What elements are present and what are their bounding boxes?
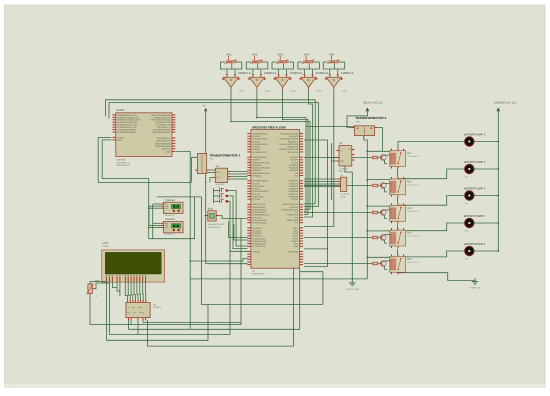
sounder BAT1 body <box>208 211 216 221</box>
svg-text:TRANSDUCER: TRANSDUCER <box>208 226 222 229</box>
resistor RB1 <box>373 156 378 159</box>
svg-text:LM324: LM324 <box>290 90 296 93</box>
wire lcd bus to mcu <box>190 258 247 261</box>
regulator U5 body <box>339 146 352 166</box>
sensor TOWER2 body <box>163 222 183 233</box>
wire tower bus <box>148 178 150 238</box>
svg-text:PE1/TXD0: PE1/TXD0 <box>252 216 261 219</box>
svg-text:BAT1: BAT1 <box>208 208 214 211</box>
svg-text:PB1/SCK: PB1/SCK <box>252 159 261 162</box>
lcd pin name strip <box>106 275 107 277</box>
svg-text:PF7/ADC7/TDI: PF7/ADC7/TDI <box>252 245 265 248</box>
potentiometer RV1 body <box>88 284 92 293</box>
wire gnd rail drop <box>300 272 323 305</box>
wire U4 bottom stubs <box>130 320 132 324</box>
svg-text:PB2/MOSI/PCINT10: PB2/MOSI/PCINT10 <box>252 161 269 164</box>
push button B2 <box>218 195 221 197</box>
mcu U2 left pins <box>247 133 251 135</box>
transistor Q1 <box>380 155 386 161</box>
svg-text:PH5/OC4C: PH5/OC4C <box>289 193 299 196</box>
sensor TOWER1 body <box>163 202 183 213</box>
svg-text:PA3/AD3: PA3/AD3 <box>252 140 260 143</box>
svg-text:PF5/ADC5/TMS: PF5/ADC5/TMS <box>252 240 266 243</box>
svg-text:VR1: VR1 <box>226 53 232 56</box>
wire adc to mcu <box>228 171 248 173</box>
svg-text:TOWER1: TOWER1 <box>165 199 176 202</box>
svg-text:PK2/ADC10/PCINT18: PK2/ADC10/PCINT18 <box>280 138 299 141</box>
svg-text:PG0/WR: PG0/WR <box>252 250 260 253</box>
wire bottom loop 1 <box>90 219 241 325</box>
svg-text:P0: P0 <box>127 312 129 315</box>
wire Q4 collector to relay <box>385 234 390 236</box>
svg-text:G2R-14 DC12: G2R-14 DC12 <box>407 184 418 187</box>
svg-text:PL4/OC5B: PL4/OC5B <box>289 167 299 170</box>
svg-text:SDD0/SPIQ/MISO: SDD0/SPIQ/MISO <box>155 142 171 145</box>
wire tower top link <box>157 196 202 198</box>
svg-text:PL2/T5: PL2/T5 <box>292 161 298 164</box>
svg-text:PH6/OC2B: PH6/OC2B <box>289 195 299 198</box>
wire buttons left bus <box>213 188 215 204</box>
svg-text:PC6/A14/RD: PC6/A14/RD <box>252 195 263 198</box>
motor pump M1 <box>465 137 474 146</box>
wire rv1 wiper <box>92 283 109 289</box>
svg-text:LM016L: LM016L <box>102 245 110 248</box>
wire comparator out 4 <box>304 91 313 217</box>
svg-text:PB0/SS/PCINT8: PB0/SS/PCINT8 <box>252 156 266 159</box>
svg-text:PA7/AD7/PCINT7: PA7/AD7/PCINT7 <box>252 151 267 154</box>
svg-text:VIN-: VIN- <box>216 176 220 179</box>
svg-text:TRANSFORMATOR 2: TRANSFORMATOR 2 <box>355 116 386 120</box>
wire Q4 emitter down <box>385 240 387 243</box>
wire trafo2 right leg <box>375 128 383 152</box>
mcu U2 right pins <box>300 133 304 135</box>
svg-text:PJ4/PCINT13: PJ4/PCINT13 <box>286 214 298 217</box>
wire top rail 2 <box>109 103 319 207</box>
svg-text:PJ5: PJ5 <box>295 216 298 219</box>
svg-text:VR4: VR4 <box>304 53 310 56</box>
wire 5V arrow down <box>205 111 207 264</box>
svg-text:COMP3:A: COMP3:A <box>290 71 303 75</box>
svg-text:PE2/XCK0/AIN0: PE2/XCK0/AIN0 <box>252 219 266 222</box>
svg-text:WATER PUMP 3: WATER PUMP 3 <box>464 187 486 191</box>
svg-text:SDD1/SPID/MOSI: SDD1/SPID/MOSI <box>155 145 171 148</box>
svg-text:PC7/A15: PC7/A15 <box>252 198 260 201</box>
svg-text:COMP1:A: COMP1:A <box>238 71 251 75</box>
transformer TR2 body <box>354 126 374 136</box>
svg-text:PF0/ADC0: PF0/ADC0 <box>252 227 261 230</box>
svg-text:GPIO10/SDD3/SPIWP: GPIO10/SDD3/SPIWP <box>152 131 172 134</box>
wire regulator ground <box>345 166 352 279</box>
svg-text:CONN: CONN <box>340 195 346 198</box>
wire pump 3 feed <box>398 196 464 206</box>
svg-text:LM324: LM324 <box>316 90 322 93</box>
svg-text:PB6/OC1B/PCINT14: PB6/OC1B/PCINT14 <box>252 172 270 175</box>
svg-text:PF2/ADC2: PF2/ADC2 <box>252 232 261 235</box>
svg-text:LCD1: LCD1 <box>102 242 109 245</box>
wire tower left link <box>152 204 154 239</box>
svg-text:SIL-100-04: SIL-100-04 <box>340 193 349 196</box>
wire transistor drive rows <box>304 157 373 159</box>
svg-text:PA0/AD0/PCINT0: PA0/AD0/PCINT0 <box>252 133 267 136</box>
svg-text:AGND: AGND <box>293 232 299 235</box>
svg-text:PA2/AD2/PCINT2: PA2/AD2/PCINT2 <box>252 138 267 141</box>
wire trafo1 right leg <box>209 169 216 171</box>
svg-text:PK5/ADC13: PK5/ADC13 <box>288 146 298 149</box>
motor pump M2 <box>465 164 474 173</box>
svg-text:GPIO13/MOSI/HSPID: GPIO13/MOSI/HSPID <box>117 131 136 134</box>
wire buttons bus 1 <box>228 191 247 247</box>
svg-text:PB7/OC0A: PB7/OC0A <box>252 174 262 177</box>
wire trafo2 left leg <box>347 112 367 128</box>
svg-text:PE0/RXD0/PCINT8: PE0/RXD0/PCINT8 <box>252 214 268 217</box>
transistor Q2 <box>380 183 386 189</box>
svg-text:PL0/ICP4: PL0/ICP4 <box>290 156 298 159</box>
svg-text:GND_PAD: GND_PAD <box>162 148 172 151</box>
svg-text:ARDUINO MEGA 2560: ARDUINO MEGA 2560 <box>252 125 286 129</box>
resistor RB4 <box>373 236 378 239</box>
svg-text:RL5: RL5 <box>407 258 412 261</box>
svg-text:AREF: AREF <box>293 227 299 230</box>
svg-text:PA6/AD6: PA6/AD6 <box>252 148 260 151</box>
io expander U4 body <box>126 302 150 317</box>
wire relay to ground run <box>397 269 475 281</box>
motor pump M4 <box>465 218 474 227</box>
motor pump M3 <box>465 191 474 200</box>
svg-text:PL6: PL6 <box>295 172 298 175</box>
wire bus B <box>176 152 190 330</box>
wire top rail 1 <box>106 100 316 204</box>
svg-text:SDCLK/SPICLK: SDCLK/SPICLK <box>157 137 171 140</box>
svg-text:PC5/A13: PC5/A13 <box>252 193 260 196</box>
svg-text:RELAY VCC 12V: RELAY VCC 12V <box>363 102 383 105</box>
svg-text:VIN5V: VIN5V <box>165 150 171 153</box>
svg-text:TRANSFORMATOR 1: TRANSFORMATOR 1 <box>210 153 241 157</box>
svg-text:G2R-14 DC12: G2R-14 DC12 <box>407 155 418 158</box>
svg-text:TOWER2: TOWER2 <box>165 218 176 221</box>
svg-text:PK1/ADC9: PK1/ADC9 <box>289 135 298 138</box>
svg-text:SENSOR VCC 12V: SENSOR VCC 12V <box>494 102 517 105</box>
svg-text:PJ0/RXD3/PCINT9: PJ0/RXD3/PCINT9 <box>282 203 298 206</box>
svg-text:SDCMD/SPICS0: SDCMD/SPICS0 <box>156 140 170 143</box>
svg-text:PC4/A12/PCINT20: PC4/A12/PCINT20 <box>252 190 268 193</box>
wire pump supply bus <box>497 115 499 251</box>
svg-text:VCC: VCC <box>294 243 299 246</box>
svg-text:ESP32: ESP32 <box>117 109 125 112</box>
wire bat left leg <box>204 215 207 217</box>
svg-text:WATER PUMP 4: WATER PUMP 4 <box>464 214 486 218</box>
module U1 left pins <box>112 114 115 116</box>
svg-text:PH1/TXD2: PH1/TXD2 <box>289 182 298 185</box>
svg-text:ATMEGA2560: ATMEGA2560 <box>252 273 266 276</box>
svg-text:PCF8574: PCF8574 <box>153 306 161 309</box>
svg-text:PL7: PL7 <box>295 174 298 177</box>
wire misc mcu left <box>228 222 247 238</box>
wire pump 2 feed <box>398 169 464 179</box>
svg-text:PF3/ADC3: PF3/ADC3 <box>252 235 261 238</box>
svg-text:G2R-14 DC12: G2R-14 DC12 <box>407 261 418 264</box>
svg-text:PD2/RXD1/INT2: PD2/RXD1/INT2 <box>252 208 266 211</box>
svg-text:XTAL1: XTAL1 <box>292 235 298 238</box>
svg-text:PK7/ADC15: PK7/ADC15 <box>288 151 298 154</box>
svg-text:WATER PUMP 2: WATER PUMP 2 <box>464 160 486 164</box>
wire bat to mcu <box>216 216 248 219</box>
svg-text:VR2: VR2 <box>252 53 258 56</box>
svg-text:PA4/AD4/PCINT4: PA4/AD4/PCINT4 <box>252 143 267 146</box>
wire buttons bus 3 <box>228 201 247 251</box>
svg-text:PD3/TXD1/INT3: PD3/TXD1/INT3 <box>252 211 266 214</box>
wire pump 1 feed <box>398 142 464 149</box>
svg-text:PF1/ADC1: PF1/ADC1 <box>252 229 261 232</box>
svg-text:VR5: VR5 <box>329 53 335 56</box>
svg-text:VR3: VR3 <box>278 53 284 56</box>
wire trafo2 down <box>364 136 368 279</box>
wire relay supply taps <box>367 150 391 152</box>
wire adc left legs <box>207 172 213 174</box>
svg-text:RELAY GND: RELAY GND <box>347 288 360 291</box>
junction dots <box>230 121 232 123</box>
svg-text:PH3/OC4A: PH3/OC4A <box>289 188 299 191</box>
relay RL1 body <box>390 151 406 167</box>
svg-text:G2R-14 DC12: G2R-14 DC12 <box>407 210 418 213</box>
resistor RB2 <box>373 184 378 187</box>
svg-text:PC0/A8/PCINT16: PC0/A8/PCINT16 <box>252 180 267 183</box>
wire bottom loop 2 <box>129 269 300 330</box>
io expander U4 top pins <box>127 300 129 303</box>
wire 5v to mcu <box>206 263 248 265</box>
wire pump 5 feed <box>398 251 464 257</box>
svg-text:B2: B2 <box>218 191 220 194</box>
svg-text:PH0/RXD2: PH0/RXD2 <box>289 180 298 183</box>
resistor RB3 <box>373 211 378 214</box>
lcd LCD1 body <box>102 250 165 282</box>
svg-text:5V: 5V <box>203 104 206 107</box>
svg-text:AMPLIFIED SONIC: AMPLIFIED SONIC <box>208 223 225 226</box>
svg-text:WATER LVL: WATER LVL <box>165 214 175 217</box>
wire comparator out 1 <box>231 91 310 209</box>
svg-text:PC1/A9: PC1/A9 <box>252 182 259 185</box>
motor pump M5 <box>465 246 474 255</box>
wire comparator out 3 <box>283 91 308 214</box>
module U1 right pins <box>172 114 175 116</box>
wire left loop 2 <box>102 140 149 179</box>
wire comparator out 5 <box>304 91 334 227</box>
svg-text:VIN+: VIN+ <box>216 171 220 174</box>
transistor Q5 <box>380 261 386 267</box>
svg-text:PB5/OC1A: PB5/OC1A <box>252 169 262 172</box>
svg-text:RL3: RL3 <box>407 207 412 210</box>
wire rv1 top <box>90 282 107 285</box>
svg-text:PJ7: PJ7 <box>295 222 298 225</box>
wire Q1 collector to relay <box>385 154 390 156</box>
svg-text:LM7805CT: LM7805CT <box>339 167 349 170</box>
wire tower1 legs <box>153 203 161 205</box>
wire buttons bus 2 <box>228 196 247 249</box>
wire pump 4 feed <box>398 223 464 231</box>
wire lcd ctrl down <box>112 282 117 287</box>
svg-text:PUMP GND: PUMP GND <box>470 287 482 290</box>
svg-text:RL2: RL2 <box>407 180 412 183</box>
mcu U2 body <box>251 130 300 269</box>
relay RL3 body <box>390 205 406 221</box>
svg-text:WATER PUMP 1: WATER PUMP 1 <box>464 133 486 137</box>
io expander U4 bottom pins <box>128 318 130 321</box>
svg-text:COMP4:A: COMP4:A <box>316 71 329 75</box>
svg-text:NODEMCU V3: NODEMCU V3 <box>117 161 131 164</box>
svg-text:WIFI MODULE: WIFI MODULE <box>117 164 131 167</box>
svg-text:PJ1/TXD3: PJ1/TXD3 <box>289 206 298 209</box>
wire bottom loop 6 <box>202 197 323 305</box>
svg-text:RESET: RESET <box>292 240 299 243</box>
ground RELAY GND <box>351 279 353 283</box>
wire bottom loop 4 <box>107 281 208 340</box>
svg-text:PK6/ADC14/PCINT22: PK6/ADC14/PCINT22 <box>280 148 299 151</box>
resistor RB5 <box>373 262 378 265</box>
svg-text:PA1/AD1: PA1/AD1 <box>252 135 260 138</box>
wire Q2 collector to relay <box>385 182 390 185</box>
wire Q5 emitter down <box>385 266 387 269</box>
svg-text:PL5/OC5C: PL5/OC5C <box>289 169 299 172</box>
wire bundle extra <box>304 140 328 267</box>
svg-text:P4 P6: P4 P6 <box>139 312 144 315</box>
svg-text:1k: 1k <box>95 295 97 298</box>
transistor Q4 <box>380 235 386 241</box>
svg-text:P2: P2 <box>133 312 135 315</box>
svg-text:PA5/AD5: PA5/AD5 <box>252 146 260 149</box>
ground PUMP GND <box>474 278 476 282</box>
svg-text:GND: GND <box>117 139 122 142</box>
svg-text:PH7/T4: PH7/T4 <box>292 198 298 201</box>
wire Q5 collector to relay <box>385 260 390 262</box>
svg-text:ESP8266: ESP8266 <box>117 158 127 161</box>
wire Q2 emitter down <box>385 188 387 192</box>
relay RL4 body <box>390 230 406 246</box>
svg-text:PD0/SCL/INT0: PD0/SCL/INT0 <box>252 203 265 206</box>
svg-text:PJ6/PCINT15: PJ6/PCINT15 <box>286 219 298 222</box>
svg-text:RL4: RL4 <box>407 232 412 235</box>
svg-text:XTAL2: XTAL2 <box>292 237 298 240</box>
adc U3 body <box>215 168 227 182</box>
module U1 body <box>116 113 172 157</box>
push button B1 <box>218 190 221 192</box>
svg-text:PH2/XCK2: PH2/XCK2 <box>289 185 298 188</box>
wire tower aux <box>148 206 150 225</box>
svg-text:PB3/MISO: PB3/MISO <box>252 164 261 167</box>
svg-text:B1: B1 <box>218 186 220 189</box>
svg-text:PF4/ADC4/TCK: PF4/ADC4/TCK <box>252 237 266 240</box>
wire trafo1 left legs <box>192 157 196 182</box>
svg-text:GND: GND <box>294 245 299 248</box>
wire connector to mcu <box>304 178 341 180</box>
svg-text:PC2/A10/WR: PC2/A10/WR <box>252 185 264 188</box>
svg-text:LM324: LM324 <box>342 90 348 93</box>
svg-text:PK3/ADC11: PK3/ADC11 <box>288 140 298 143</box>
push button B3 <box>218 200 221 202</box>
wire lcd data to U4 <box>125 282 127 300</box>
svg-text:AVCC: AVCC <box>293 229 299 232</box>
svg-text:PL1/ICP5: PL1/ICP5 <box>290 159 298 162</box>
svg-text:PD1/SDA/INT1: PD1/SDA/INT1 <box>252 206 265 209</box>
wire Q3 emitter down <box>385 215 387 218</box>
wire tower2 legs <box>153 222 161 224</box>
svg-text:B3: B3 <box>218 196 220 199</box>
svg-text:LM324: LM324 <box>239 90 245 93</box>
svg-text:PF6/ADC6/TDO: PF6/ADC6/TDO <box>252 243 266 246</box>
wire comparator out 2 <box>257 91 306 212</box>
svg-text:PB4/OC2A/PCINT12: PB4/OC2A/PCINT12 <box>252 167 270 170</box>
wire relay common chain <box>396 169 398 177</box>
transformer TR1 body <box>197 153 206 173</box>
wire left loop 1 <box>98 137 190 182</box>
svg-text:COMP5:A: COMP5:A <box>341 71 354 75</box>
wire Q3 collector to relay <box>385 209 390 211</box>
svg-text:A1: A1 <box>132 306 134 309</box>
svg-text:PH4/OC4B: PH4/OC4B <box>289 190 299 193</box>
relay RL5 body <box>390 256 406 272</box>
svg-text:WATER LVL: WATER LVL <box>165 233 175 236</box>
svg-text:PK0/ADC8/PCINT16: PK0/ADC8/PCINT16 <box>281 133 298 136</box>
wire relay gnd rail <box>190 278 367 280</box>
svg-text:PG5/OC0B: PG5/OC0B <box>289 250 299 253</box>
transistor Q3 <box>380 210 386 216</box>
svg-text:A0: A0 <box>127 306 129 309</box>
svg-text:PC3/A11: PC3/A11 <box>252 188 259 191</box>
svg-text:PJ3: PJ3 <box>295 211 298 214</box>
svg-text:PK4/ADC12/PCINT20: PK4/ADC12/PCINT20 <box>280 143 299 146</box>
wire bottom loop 3 <box>110 240 231 334</box>
svg-text:PL3/OC5A: PL3/OC5A <box>289 164 299 167</box>
svg-text:COMP2:A: COMP2:A <box>264 71 277 75</box>
svg-text:LM324: LM324 <box>265 90 271 93</box>
wire bottom loop 5 <box>148 269 294 347</box>
wire chip to transformer2 <box>306 126 355 128</box>
lcd LCD1 pins <box>106 277 108 281</box>
wire Q1 emitter down <box>385 160 387 164</box>
svg-text:WATER PMUP 5: WATER PMUP 5 <box>464 242 486 246</box>
svg-text:RL1: RL1 <box>407 152 412 155</box>
svg-text:REG 5V: REG 5V <box>339 170 347 173</box>
relay RL2 body <box>390 179 406 195</box>
wire tower bottom link <box>149 197 195 239</box>
svg-text:G2R-14 DC12: G2R-14 DC12 <box>407 235 418 238</box>
connector J1 body <box>341 177 347 191</box>
svg-text:PE3/OC3A/AIN1: PE3/OC3A/AIN1 <box>252 222 266 225</box>
svg-text:PJ2/XCK3/PCINT11: PJ2/XCK3/PCINT11 <box>281 208 298 211</box>
